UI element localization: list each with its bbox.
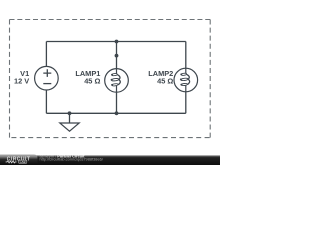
svg-text:45 Ω: 45 Ω [157,77,173,86]
ground [60,113,79,131]
junction dot ground node [68,111,72,115]
logo LAB box [19,160,27,164]
wire LAMP2 branch upper [185,42,187,69]
svg-text:45 Ω: 45 Ω [84,77,100,86]
dashed selection border top [10,19,211,21]
wire V1 branch upper [45,42,47,67]
svg-text:12 V: 12 V [14,77,29,86]
wire bottom rail [46,112,185,114]
logo resistor zigzag [6,161,17,163]
lamp LAMP2 [174,68,198,92]
footer logo plate [0,155,38,166]
wire V1 branch lower [45,90,47,113]
wire top rail [46,41,185,43]
svg-text:LAB: LAB [20,160,26,164]
dashed selection border left [9,20,11,138]
junction dot bottom of LAMP1 branch [115,111,119,115]
lamp LAMP1 [105,69,129,93]
voltage source V1 [35,66,59,90]
wire LAMP2 branch lower [185,92,187,114]
junction dot top of LAMP1 branch [115,40,119,44]
wire LAMP1 branch upper [116,42,118,69]
wire LAMP1 branch lower [116,92,118,113]
svg-text:http://circuitlab.com/c/qds798: http://circuitlab.com/c/qds7988f38e6/ [40,156,104,161]
dashed selection border bottom [10,137,211,139]
junction dot mid LAMP1 branch [115,54,119,58]
dashed selection border right [209,20,211,138]
